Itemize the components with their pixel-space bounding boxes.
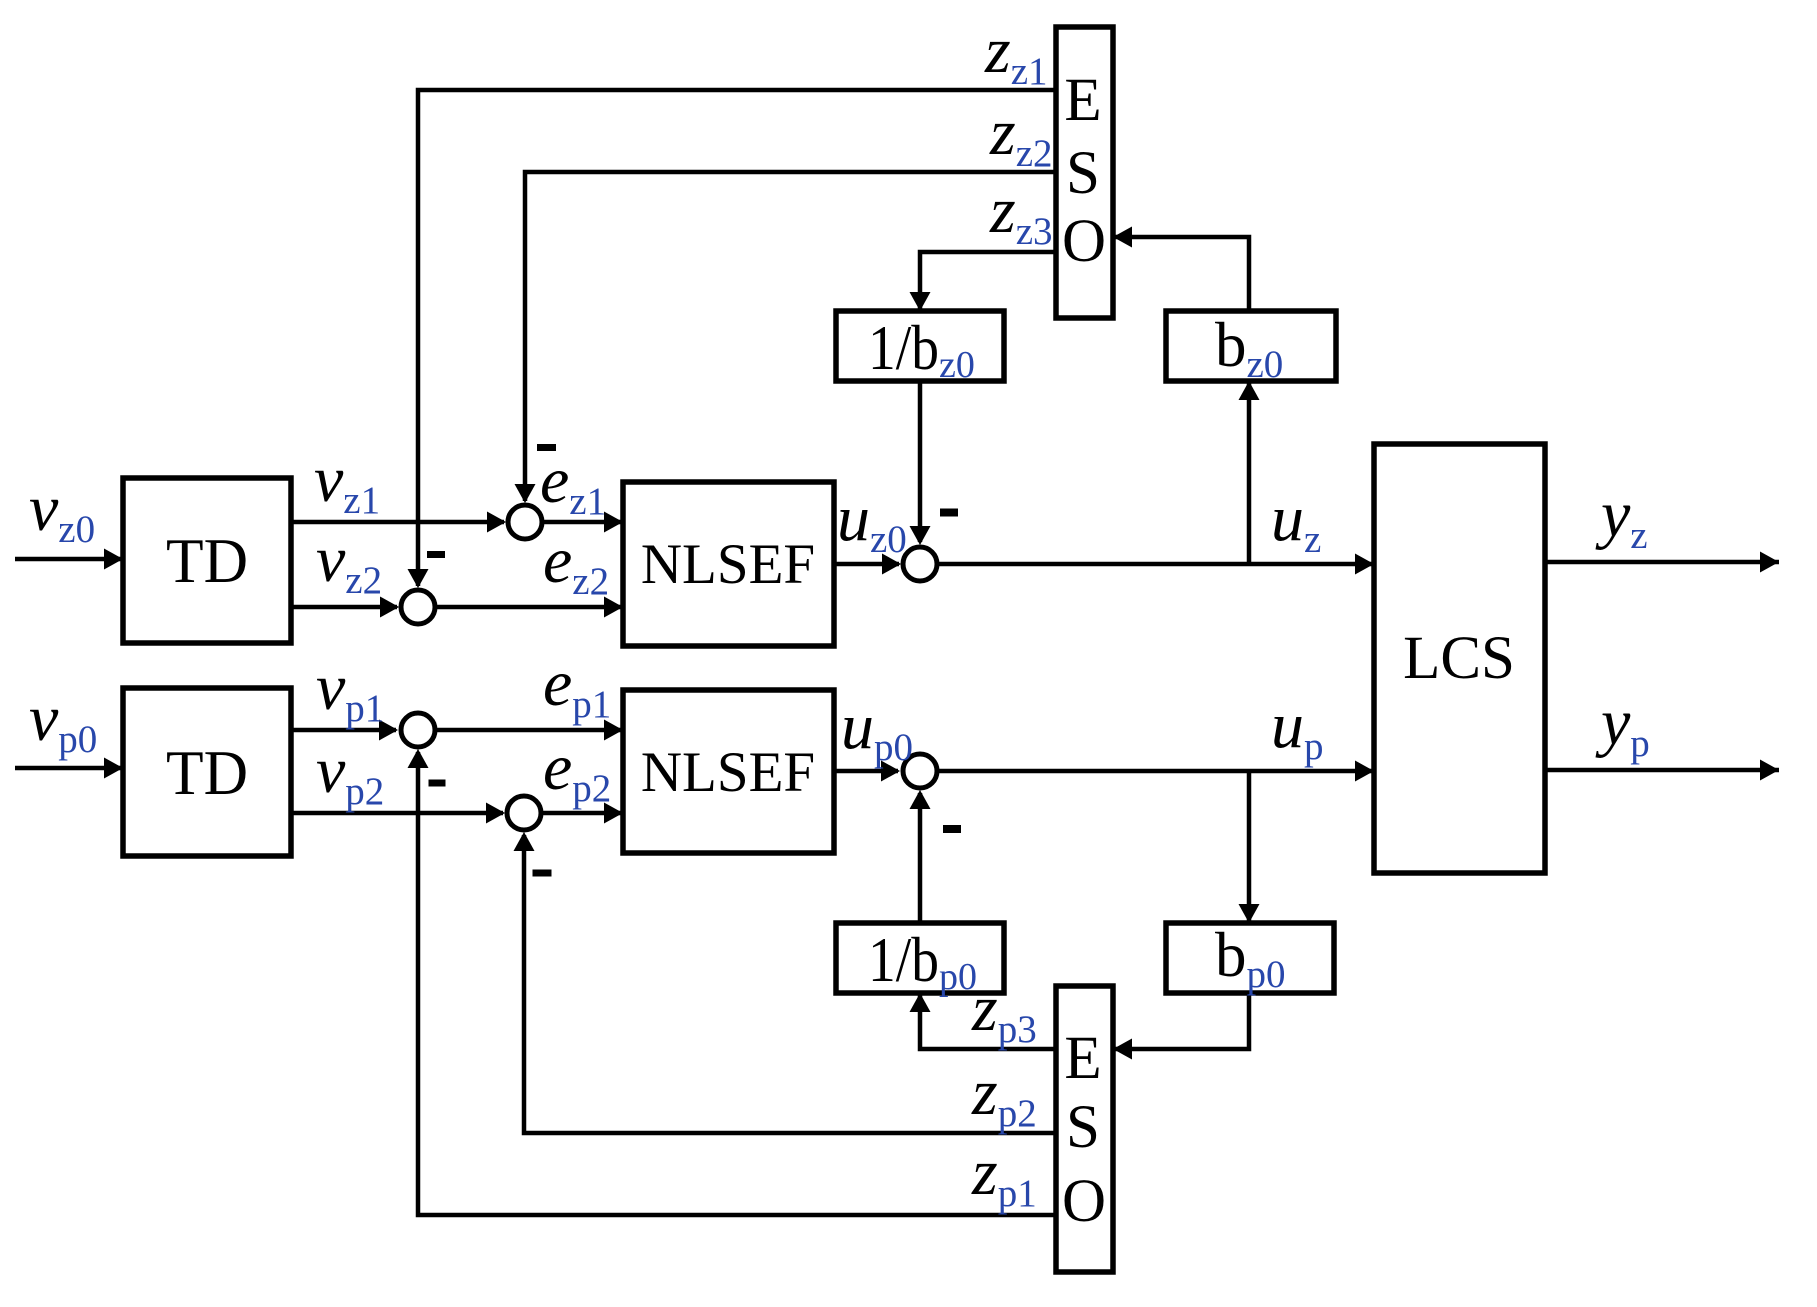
block TD (p channel) [123, 688, 291, 856]
wire u_z sum to LCS [939, 554, 1374, 575]
block b_z0 [1166, 310, 1336, 386]
summing junction e_p2 [507, 796, 541, 830]
wire v_z1 TD to sum [291, 512, 506, 533]
label y_z [1595, 478, 1648, 557]
summing junction e_p1 [401, 713, 435, 747]
wire z_p1 feedback ESO to sum e_p1 [408, 749, 1057, 1215]
block LCS [1374, 444, 1545, 873]
wire v_z2 TD to sum [291, 597, 399, 618]
svg-text:TD: TD [166, 525, 248, 596]
minus sign at e_p2 [533, 870, 552, 877]
svg-text:LCS: LCS [1403, 625, 1515, 692]
svg-text:1/b: 1/b [868, 925, 939, 995]
block ESO (p channel) [1056, 986, 1113, 1272]
wire u_z branch to b_z0 [1239, 381, 1260, 564]
label e_z2 [543, 524, 609, 603]
summing junction u_z0 [903, 547, 937, 581]
wire b_p0 to ESO [1113, 993, 1249, 1060]
label v_p0 [29, 682, 97, 761]
summing junction u_p0 [903, 754, 937, 788]
svg-text:O: O [1062, 1168, 1106, 1235]
wire e_p2 sum to NLSEF [543, 803, 623, 824]
wire z_p3 ESO to 1/b_p0 [910, 993, 1057, 1049]
label v_z2 [316, 523, 382, 602]
wire v_p2 TD to sum [291, 803, 505, 824]
label v_z0 [29, 472, 95, 551]
wire u_z0 NLSEF to sum [834, 554, 901, 575]
wire output y_z [1545, 552, 1779, 573]
label v_z1 [314, 443, 380, 522]
summing junction e_z2 [401, 590, 435, 624]
label z_z1 [984, 14, 1048, 93]
label z_z2 [989, 96, 1053, 175]
block TD (z channel) [123, 478, 291, 643]
wire output y_p [1545, 760, 1779, 781]
wire 1/b_z0 to sum u_z0 [910, 381, 931, 545]
block 1/b_z0 [836, 311, 1004, 386]
label v_p2 [316, 734, 384, 813]
label u_z0 [837, 482, 907, 561]
svg-text:TD: TD [166, 737, 248, 808]
wire v_p1 TD to sum [291, 720, 398, 741]
label e_p2 [543, 731, 611, 810]
wire 1/b_p0 to sum u_p0 [910, 790, 931, 923]
wire e_z2 sum to NLSEF [437, 597, 623, 618]
wire e_z1 sum to NLSEF [544, 512, 623, 533]
wire b_z0 to ESO [1113, 227, 1249, 312]
svg-text:S: S [1066, 140, 1100, 207]
svg-text:E: E [1064, 67, 1101, 134]
label z_z3 [989, 174, 1053, 253]
label z_p1 [971, 1136, 1037, 1215]
block NLSEF (z channel) [623, 482, 834, 646]
label u_p [1271, 689, 1324, 768]
label e_p1 [543, 647, 611, 726]
svg-text:S: S [1066, 1094, 1100, 1161]
svg-text:O: O [1062, 208, 1106, 275]
svg-text:1/b: 1/b [868, 313, 939, 383]
label y_p [1595, 686, 1650, 765]
label u_p0 [841, 690, 913, 769]
minus sign at e_p1 [429, 780, 446, 787]
svg-text:NLSEF: NLSEF [641, 741, 815, 804]
wire u_p0 NLSEF to sum [834, 761, 900, 782]
wire u_p branch to b_p0 [1239, 771, 1260, 923]
block 1/b_p0 [836, 923, 1004, 998]
minus sign at e_z1 [537, 444, 556, 451]
wire z_z3 ESO to 1/b_z0 [910, 252, 1057, 311]
label u_z [1271, 482, 1321, 561]
label z_p3 [971, 972, 1037, 1051]
block b_p0 [1166, 920, 1334, 996]
wire e_p1 sum to NLSEF [437, 720, 623, 741]
minus sign at e_z2 [427, 551, 445, 558]
wire z_p2 feedback ESO to sum e_p2 [514, 832, 1057, 1133]
wire input v_z0 [15, 549, 123, 570]
svg-text:E: E [1064, 1025, 1101, 1092]
svg-text:z0: z0 [939, 344, 975, 386]
wire u_p sum to LCS [939, 761, 1374, 782]
label e_z1 [540, 444, 606, 523]
minus sign at u_p0 [943, 825, 961, 833]
block NLSEF (p channel) [623, 690, 834, 853]
block ESO (z channel) [1056, 27, 1113, 318]
label z_p2 [971, 1056, 1037, 1135]
svg-text:NLSEF: NLSEF [641, 533, 815, 596]
wire input v_p0 [15, 758, 123, 779]
wire z_z2 feedback ESO to sum e_z1 [515, 172, 1057, 503]
minus sign at u_z0 [940, 509, 958, 517]
wire z_z1 feedback ESO to sum e_z2 [408, 90, 1057, 588]
summing junction e_z1 [508, 505, 542, 539]
label v_p1 [316, 651, 384, 730]
